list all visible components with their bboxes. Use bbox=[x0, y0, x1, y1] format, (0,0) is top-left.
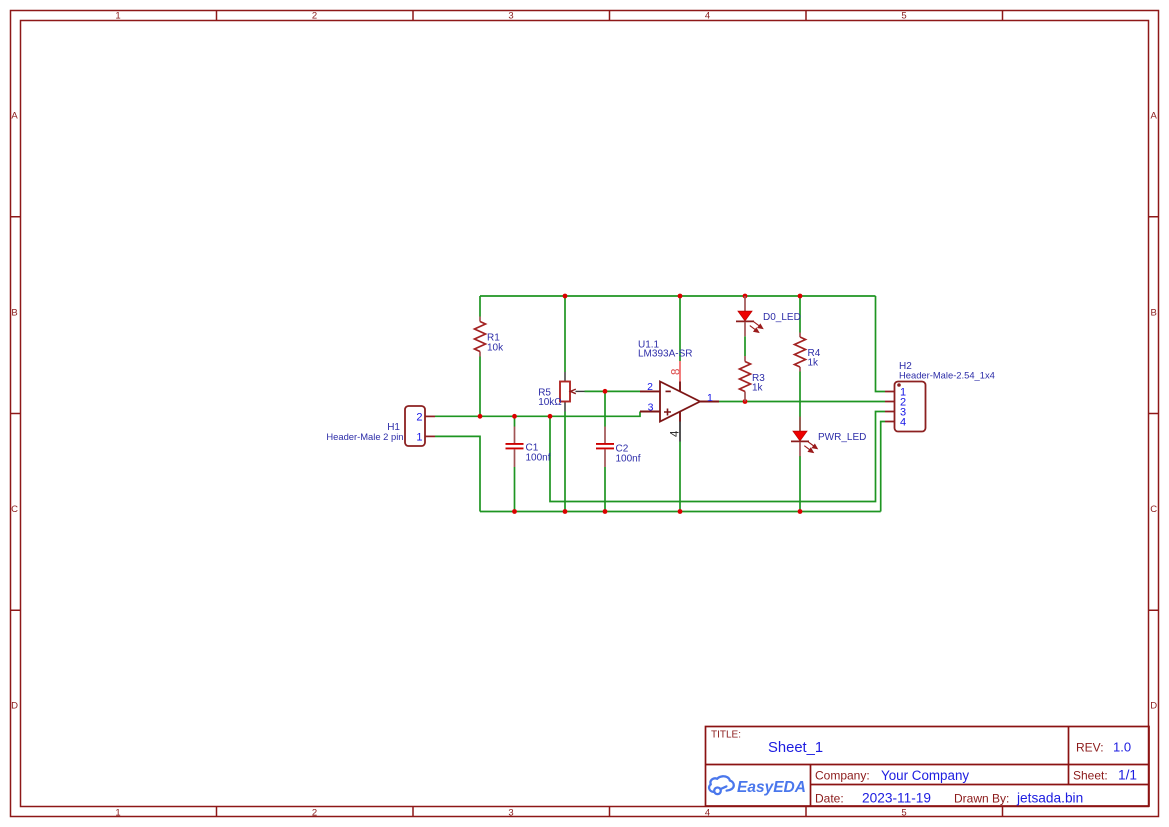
pin 8 bbox=[679, 361, 681, 382]
svg-text:1: 1 bbox=[115, 11, 120, 22]
capacitor C1 bbox=[506, 427, 524, 468]
wire GND bottom rail bbox=[480, 511, 881, 513]
junction VCC rail / R4 bbox=[798, 294, 803, 299]
svg-text:2: 2 bbox=[312, 808, 317, 819]
svg-text:1: 1 bbox=[416, 431, 422, 443]
junction GND rail / PWR_LED bbox=[798, 509, 803, 514]
minus bbox=[666, 390, 671, 392]
wire VCC drop to R4 bbox=[799, 296, 801, 333]
wire VCC drop to H2 pin1 bbox=[876, 296, 886, 392]
svg-text:100nf: 100nf bbox=[526, 453, 551, 464]
junction GND rail / U1 pin4 bbox=[678, 509, 683, 514]
junction VCC rail / R5 bbox=[563, 294, 568, 299]
plus bbox=[664, 409, 671, 416]
junction IN+ net / H2 pin3 branch bbox=[548, 414, 553, 419]
svg-text:5: 5 bbox=[901, 11, 906, 22]
resistor R1 bbox=[475, 317, 486, 357]
LED PWR_LED bbox=[791, 417, 817, 457]
svg-text:EasyEDA: EasyEDA bbox=[737, 779, 806, 796]
svg-text:4: 4 bbox=[670, 430, 682, 437]
wire VCC top rail bbox=[480, 295, 876, 297]
wire R4 bottom to PWR_LED bbox=[799, 372, 801, 432]
wire pin3 net to H2 pin3 bbox=[550, 412, 885, 502]
junction IN+ net / C1 bbox=[512, 414, 517, 419]
svg-text:3: 3 bbox=[508, 11, 513, 22]
svg-text:2: 2 bbox=[647, 381, 653, 393]
header H1 bbox=[405, 406, 435, 446]
svg-text:Company:: Company: bbox=[815, 769, 870, 783]
junction wiper net / C2 bbox=[603, 389, 608, 394]
wire VCC drop to R5 top bbox=[564, 296, 566, 372]
svg-text:Date:: Date: bbox=[815, 792, 844, 806]
svg-text:1k: 1k bbox=[752, 383, 764, 394]
potentiometer R5 bbox=[560, 372, 585, 412]
junction VCC rail / U1 pin8 bbox=[678, 294, 683, 299]
svg-text:5: 5 bbox=[901, 808, 906, 819]
svg-text:3: 3 bbox=[648, 402, 654, 414]
svg-text:10kΩ: 10kΩ bbox=[538, 397, 562, 408]
svg-text:Header-Male-2.54_1x4: Header-Male-2.54_1x4 bbox=[899, 370, 995, 381]
svg-text:1.0: 1.0 bbox=[1113, 740, 1131, 755]
wire R5 wiper to opamp pin2 bbox=[585, 390, 641, 392]
pin 2 bbox=[640, 390, 660, 392]
junction GND rail / C2 bbox=[603, 509, 608, 514]
resistor R3 bbox=[740, 356, 751, 402]
title block bbox=[706, 727, 1150, 807]
svg-text:4: 4 bbox=[705, 11, 710, 22]
svg-text:10k: 10k bbox=[487, 343, 504, 354]
wire PWR_LED cathode to GND rail bbox=[799, 456, 801, 512]
svg-text:C: C bbox=[11, 504, 18, 515]
svg-text:Drawn By:: Drawn By: bbox=[954, 792, 1009, 806]
wire R1 bottom to mid rail bbox=[479, 357, 481, 417]
svg-text:C: C bbox=[1150, 504, 1157, 515]
pin 1 bbox=[700, 401, 719, 403]
EasyEDA logo bbox=[709, 776, 734, 794]
svg-text:2: 2 bbox=[312, 11, 317, 22]
wire C1 bottom bbox=[514, 467, 516, 512]
svg-text:2: 2 bbox=[416, 411, 422, 423]
wire C2 top bbox=[604, 391, 606, 426]
wire GND rail to H2 pin4 bbox=[881, 422, 885, 512]
wire C2 bottom bbox=[604, 467, 606, 512]
svg-text:4: 4 bbox=[900, 417, 906, 429]
LED D0_LED bbox=[736, 296, 763, 336]
svg-text:1: 1 bbox=[115, 808, 120, 819]
wire R5 bottom to GND rail bbox=[564, 412, 566, 512]
svg-text:B: B bbox=[1151, 307, 1157, 318]
pin 4 bbox=[679, 412, 681, 422]
junction GND rail / R5 bbox=[563, 509, 568, 514]
junction VCC rail / D0_LED bbox=[743, 294, 748, 299]
wires bbox=[435, 296, 885, 512]
svg-text:3: 3 bbox=[508, 808, 513, 819]
wire R1 top bbox=[479, 296, 481, 317]
wire VCC drop to opamp pin8 bbox=[679, 296, 681, 361]
resistor R4 bbox=[795, 333, 806, 372]
wire H1 pin2 to opamp pin3 bbox=[435, 412, 640, 417]
svg-text:B: B bbox=[11, 307, 17, 318]
svg-text:8: 8 bbox=[671, 369, 683, 375]
svg-text:4: 4 bbox=[705, 808, 710, 819]
svg-text:1k: 1k bbox=[808, 358, 820, 369]
svg-text:1/1: 1/1 bbox=[1118, 768, 1137, 783]
wire D0_LED cathode to R3 bbox=[744, 336, 746, 356]
svg-text:Your Company: Your Company bbox=[881, 768, 969, 783]
svg-text:Sheet_1: Sheet_1 bbox=[768, 740, 823, 756]
svg-text:A: A bbox=[1151, 111, 1158, 122]
pin 3 bbox=[640, 411, 660, 413]
svg-text:Header-Male 2 pin: Header-Male 2 pin bbox=[326, 431, 403, 442]
svg-text:D: D bbox=[11, 701, 18, 712]
svg-text:jetsada.bin: jetsada.bin bbox=[1016, 791, 1083, 806]
wire H1 pin1 to GND rail bbox=[435, 436, 480, 511]
header H2 bbox=[885, 382, 926, 432]
junction GND rail / C1 bbox=[512, 509, 517, 514]
svg-text:D0_LED: D0_LED bbox=[763, 312, 801, 323]
svg-text:2023-11-19: 2023-11-19 bbox=[862, 791, 931, 806]
junction IN+ net / R1 bbox=[478, 414, 483, 419]
triangle bbox=[660, 382, 700, 422]
svg-text:Sheet:: Sheet: bbox=[1073, 769, 1108, 783]
capacitor C2 bbox=[596, 427, 614, 468]
wire opamp pin4 to GND rail bbox=[679, 442, 681, 512]
svg-text:100nf: 100nf bbox=[616, 454, 641, 465]
svg-text:REV:: REV: bbox=[1076, 741, 1104, 755]
svg-text:D: D bbox=[1150, 701, 1157, 712]
op-amp U1 bbox=[640, 361, 719, 442]
wire C1 top bbox=[514, 416, 516, 426]
wire opamp output to H2 pin2 bbox=[719, 401, 885, 403]
svg-text:LM393A-SR: LM393A-SR bbox=[638, 349, 692, 360]
svg-text:A: A bbox=[11, 111, 18, 122]
junction output net / R3 bbox=[743, 399, 748, 404]
svg-text:TITLE:: TITLE: bbox=[711, 730, 741, 741]
svg-text:PWR_LED: PWR_LED bbox=[818, 432, 866, 443]
svg-text:1: 1 bbox=[707, 392, 713, 404]
